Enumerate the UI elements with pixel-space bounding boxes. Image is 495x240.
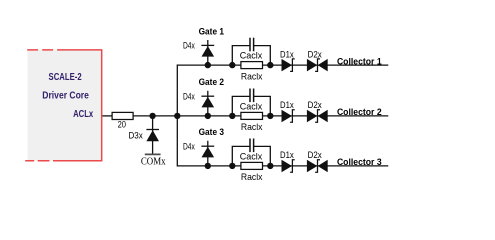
node RC left row 3 [229,163,235,169]
wire ACLx stub [102,115,112,117]
svg-text:Gate 1: Gate 1 [199,26,225,37]
svg-text:D1x: D1x [280,49,294,59]
node D4x anode row 2 [205,113,211,119]
diode D1x (row 2) [282,110,295,123]
wire gate 3 stub [207,141,209,166]
resistor Raclx (row 2) [241,112,263,119]
svg-text:D3x: D3x [128,131,143,141]
wire capacitor branch row 1 [232,46,270,66]
box border right solid [101,50,103,161]
wire D3x branch [152,116,154,154]
node RC left row 1 [229,62,235,68]
svg-text:D1x: D1x [280,100,294,110]
resistor 20 [112,112,133,119]
svg-text:D4x: D4x [183,91,195,101]
diode D2x (row 1) [307,59,328,72]
wire vertical bus [176,65,178,166]
wire gate 2 stub [207,91,209,116]
wire row 1 [177,64,388,66]
node D4x anode row 1 [205,62,211,68]
wire gate 1 stub [207,40,209,65]
svg-text:Collector 3: Collector 3 [337,157,382,168]
wire capacitor branch row 2 [232,96,270,116]
diode D4x (row 2) [201,96,214,107]
node D3x branch [149,113,155,119]
svg-text:D2x: D2x [308,150,323,160]
svg-text:COMx: COMx [141,157,166,168]
svg-text:Raclx: Raclx [241,172,263,182]
node RC left row 2 [229,113,235,119]
svg-text:D2x: D2x [308,100,323,110]
svg-text:Driver Core: Driver Core [42,91,89,102]
svg-text:Gate 3: Gate 3 [199,127,224,138]
svg-text:D1x: D1x [280,150,294,160]
wire main ACLx to collector row 2 [133,115,388,117]
svg-text:SCALE-2: SCALE-2 [49,72,82,83]
svg-text:Caclx: Caclx [240,101,263,111]
svg-text:Caclx: Caclx [240,151,263,161]
capacitor Caclx (row 2) [250,89,254,103]
svg-text:Caclx: Caclx [240,51,263,61]
node RC right row 3 [267,163,273,169]
resistor Raclx (row 3) [241,162,263,169]
node RC right row 1 [267,62,273,68]
svg-text:ACLx: ACLx [73,109,93,120]
svg-text:Gate 2: Gate 2 [199,77,224,88]
svg-text:Raclx: Raclx [241,71,263,81]
box border bottom dashed [25,160,102,162]
svg-text:D4x: D4x [183,141,195,151]
SCALE-2 driver core box U1 [28,50,102,161]
svg-text:D4x: D4x [183,41,195,51]
capacitor Caclx (row 3) [250,139,254,153]
capacitor Caclx (row 1) [250,38,254,52]
diode D3x [146,130,159,142]
svg-text:Raclx: Raclx [241,122,263,132]
svg-text:D2x: D2x [308,49,323,59]
svg-text:Collector 1: Collector 1 [337,56,382,67]
svg-text:20: 20 [118,120,126,130]
diode D1x (row 1) [282,59,295,72]
node D4x anode row 3 [205,163,211,169]
terminal COMx tick [145,153,161,155]
diode D1x (row 3) [282,160,295,173]
diode D4x (row 1) [201,45,214,56]
resistor Raclx (row 1) [241,62,263,69]
node RC right row 2 [267,113,273,119]
diode D4x (row 3) [201,146,214,157]
wire capacitor branch row 3 [232,146,270,166]
svg-text:Collector 2: Collector 2 [337,107,382,118]
diode D2x (row 3) [307,160,328,173]
box border top dashed [27,49,102,51]
wire row 3 [177,165,388,167]
node bus junction [174,113,180,119]
diode D2x (row 2) [307,110,328,123]
